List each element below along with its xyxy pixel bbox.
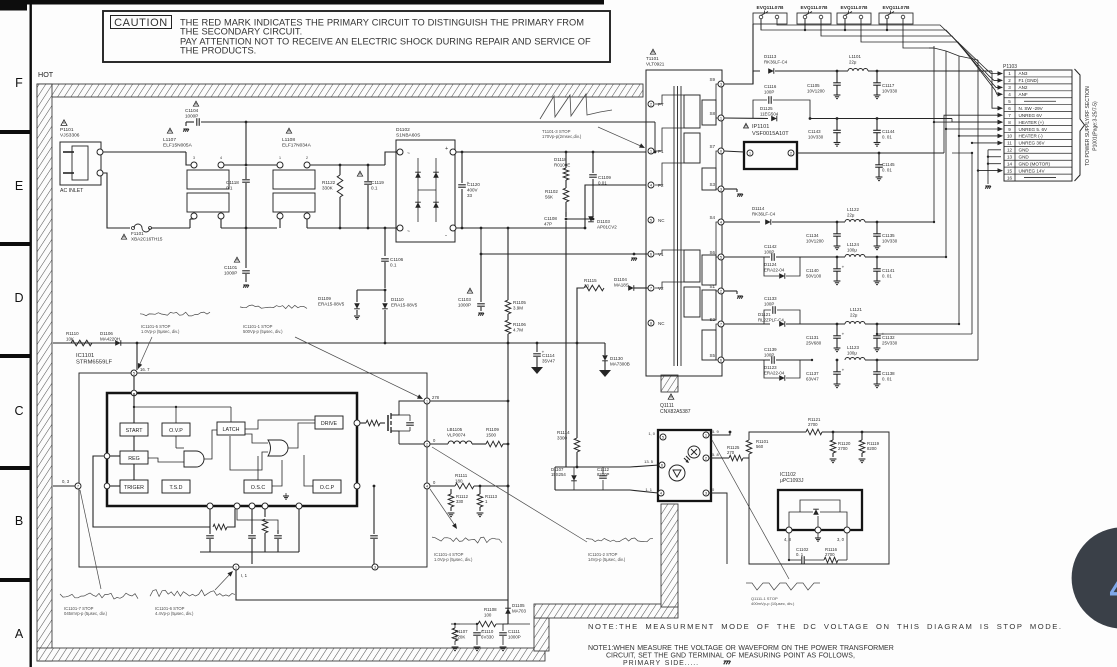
svg-text:LB1105: LB1105	[447, 427, 463, 432]
svg-text:S7: S7	[709, 144, 715, 149]
svg-text:D1124: D1124	[764, 262, 777, 267]
svg-text:1000P: 1000P	[508, 634, 521, 639]
svg-text:100μ: 100μ	[847, 350, 857, 355]
svg-text:22μ: 22μ	[849, 59, 857, 64]
svg-text:3.9M: 3.9M	[513, 305, 523, 310]
svg-text:100P: 100P	[764, 301, 774, 306]
svg-text:0, 3: 0, 3	[62, 479, 70, 484]
svg-text:MA18S: MA18S	[614, 282, 629, 287]
svg-text:~: ~	[407, 229, 410, 235]
svg-text:C1101: C1101	[224, 265, 238, 270]
svg-text:L1122: L1122	[847, 207, 859, 212]
svg-text:B: B	[15, 514, 23, 528]
svg-text:D1102: D1102	[396, 127, 410, 133]
svg-text:AN3: AN3	[1019, 71, 1028, 76]
svg-text:15: 15	[1007, 168, 1013, 173]
svg-text:7: 7	[1008, 113, 1011, 118]
svg-text:22μ: 22μ	[847, 212, 855, 217]
svg-text:22μ: 22μ	[850, 312, 858, 317]
svg-text:D1104: D1104	[614, 277, 627, 282]
svg-text:10V1200: 10V1200	[806, 238, 824, 243]
svg-text:11EG504: 11EG504	[760, 111, 779, 116]
svg-text:25V330: 25V330	[882, 340, 898, 345]
svg-text:S3: S3	[709, 182, 715, 187]
svg-text:ERA22-04: ERA22-04	[764, 267, 785, 272]
svg-text:15S254: 15S254	[551, 472, 566, 477]
svg-text:11: 11	[1007, 141, 1012, 146]
svg-text:C1105: C1105	[807, 83, 820, 88]
svg-text:10: 10	[1007, 134, 1013, 139]
svg-text:0.1: 0.1	[226, 186, 233, 191]
svg-text:D1106: D1106	[100, 331, 113, 336]
svg-text:14: 14	[1007, 161, 1013, 166]
svg-text:RK36LF-C4: RK36LF-C4	[752, 211, 776, 216]
svg-text:D1123: D1123	[764, 365, 777, 370]
svg-text:560: 560	[756, 444, 764, 449]
svg-text:NOTE:THE MEASURMENT MODE OF TH: NOTE:THE MEASURMENT MODE OF THE DC VOLTA…	[588, 622, 1063, 631]
svg-text:R1122: R1122	[322, 180, 336, 185]
svg-text:AC INLET: AC INLET	[60, 188, 84, 194]
svg-text:R1114: R1114	[557, 430, 570, 435]
svg-text:R1110: R1110	[66, 331, 79, 336]
svg-text:P1103: P1103	[1003, 64, 1017, 70]
svg-text:400mVp-p (10μsec, div.): 400mVp-p (10μsec, div.)	[751, 601, 795, 606]
svg-text:2700: 2700	[838, 446, 848, 451]
svg-text:T.S.D: T.S.D	[170, 485, 183, 491]
svg-text:1. 1: 1. 1	[645, 487, 652, 492]
svg-text:-: -	[445, 233, 447, 239]
svg-text:ELF17N034A: ELF17N034A	[282, 143, 312, 149]
svg-text:VLP0074: VLP0074	[447, 432, 466, 437]
svg-text:C1139: C1139	[764, 347, 777, 352]
svg-text:C1140: C1140	[806, 268, 819, 273]
svg-text:D1113: D1113	[764, 54, 777, 59]
svg-text:GND: GND	[1019, 155, 1030, 160]
svg-text:C1119: C1119	[371, 180, 384, 185]
svg-text:TO POWER SUPPLY/RF SECTION: TO POWER SUPPLY/RF SECTION	[1085, 86, 1091, 166]
svg-text:3: 3	[193, 156, 195, 160]
svg-text:D1109: D1109	[318, 296, 331, 301]
svg-text:1500: 1500	[486, 432, 497, 437]
svg-text:L1108: L1108	[282, 137, 295, 143]
svg-text:V2: V2	[658, 286, 664, 291]
svg-text:UNREG 5. 6V: UNREG 5. 6V	[1019, 127, 1049, 132]
svg-text:I, 1: I, 1	[241, 573, 248, 578]
svg-text:DRIVE: DRIVE	[321, 421, 338, 427]
svg-text:R1111: R1111	[455, 473, 468, 478]
svg-text:R1105: R1105	[513, 300, 526, 305]
svg-text:HOT: HOT	[38, 70, 54, 79]
svg-text:D1118: D1118	[554, 157, 567, 162]
svg-text:V1: V1	[658, 252, 664, 257]
svg-text:N. SW -29V: N. SW -29V	[1019, 106, 1044, 111]
svg-text:P1001(Page:3-25/7-5): P1001(Page:3-25/7-5)	[1093, 101, 1099, 151]
svg-text:1000P: 1000P	[224, 271, 237, 276]
svg-text:2700: 2700	[825, 552, 835, 557]
svg-text:HEATER (-): HEATER (-)	[1019, 134, 1044, 139]
svg-text:0. 01: 0. 01	[882, 273, 892, 278]
svg-text:1, 0: 1, 0	[648, 431, 655, 436]
svg-text:GND: GND	[1019, 148, 1030, 153]
svg-text:VLT0921: VLT0921	[646, 62, 665, 67]
svg-text:EVQ11L07B: EVQ11L07B	[801, 5, 828, 11]
svg-text:REG: REG	[128, 456, 139, 462]
svg-text:C1142: C1142	[764, 244, 777, 249]
svg-text:47P: 47P	[544, 221, 552, 226]
svg-text:2: 2	[306, 156, 308, 160]
svg-text:C1141: C1141	[882, 268, 895, 273]
svg-text:MA4220H: MA4220H	[100, 336, 120, 341]
svg-text:PT: PT	[658, 102, 664, 107]
svg-text:10V1200: 10V1200	[807, 88, 825, 93]
svg-text:0.1: 0.1	[371, 186, 378, 191]
svg-text:33: 33	[467, 193, 473, 198]
svg-text:1: 1	[279, 156, 281, 160]
svg-text:NOTE1:WHEN MEASURE THE VOLTAGE: NOTE1:WHEN MEASURE THE VOLTAGE OR WAVEFO…	[588, 645, 894, 652]
svg-text:16: 16	[1007, 175, 1013, 180]
svg-text:A: A	[15, 627, 24, 641]
svg-text:R1115: R1115	[584, 278, 597, 283]
svg-text:L1101: L1101	[849, 54, 861, 59]
svg-text:8: 8	[1008, 120, 1011, 125]
svg-text:D1121: D1121	[758, 312, 771, 317]
svg-text:E: E	[15, 179, 23, 193]
svg-text:C1106: C1106	[390, 257, 404, 262]
svg-text:IC1101: IC1101	[76, 353, 94, 359]
svg-text:VJS3306: VJS3306	[60, 133, 80, 139]
svg-text:9: 9	[1008, 127, 1011, 132]
svg-text:GND (MOTOR): GND (MOTOR)	[1019, 161, 1051, 166]
svg-text:IP1101: IP1101	[752, 124, 769, 130]
svg-text:C1138: C1138	[882, 371, 895, 376]
svg-text:13. 5: 13. 5	[644, 459, 654, 464]
svg-text:P1: P1	[658, 149, 664, 154]
svg-text:100: 100	[484, 612, 492, 617]
svg-text:D1103: D1103	[597, 219, 610, 224]
svg-text:4.7M: 4.7M	[513, 327, 523, 332]
svg-text:50V100: 50V100	[806, 273, 822, 278]
svg-text:NC: NC	[658, 321, 665, 326]
svg-text:C1131: C1131	[806, 335, 819, 340]
svg-text:D1125: D1125	[760, 106, 773, 111]
svg-text:+: +	[842, 264, 845, 269]
svg-text:HEATER (+): HEATER (+)	[1019, 120, 1045, 125]
svg-text:+: +	[482, 628, 485, 633]
svg-text:6V330: 6V330	[481, 634, 494, 639]
svg-text:3, 0: 3, 0	[837, 537, 845, 542]
svg-text:O.C.P: O.C.P	[320, 485, 335, 491]
svg-text:S9: S9	[709, 77, 715, 82]
svg-text:16. 7: 16. 7	[140, 367, 150, 372]
svg-text:μPC1093J: μPC1093J	[780, 478, 804, 484]
svg-text:5: 5	[1008, 99, 1011, 104]
svg-text:D1110: D1110	[391, 297, 404, 302]
svg-text:S4: S4	[709, 215, 715, 220]
svg-text:C1134: C1134	[806, 233, 819, 238]
svg-text:C1108: C1108	[544, 216, 557, 221]
svg-text:1000P: 1000P	[185, 114, 198, 119]
svg-text:100P: 100P	[764, 249, 774, 254]
svg-text:L1107: L1107	[163, 137, 176, 143]
svg-text:EVQ11L07B: EVQ11L07B	[841, 5, 868, 11]
svg-text:ERA15-08V5: ERA15-08V5	[391, 302, 418, 307]
svg-text:270: 270	[727, 450, 735, 455]
svg-text:MA703: MA703	[512, 608, 526, 613]
svg-text:+: +	[445, 146, 448, 152]
svg-text:10V330: 10V330	[882, 238, 898, 243]
svg-text:35V47: 35V47	[542, 358, 556, 363]
svg-text:CNX82A5387: CNX82A5387	[660, 409, 691, 415]
svg-text:L1123: L1123	[847, 345, 859, 350]
svg-text:63V47: 63V47	[806, 376, 819, 381]
svg-text:L1124: L1124	[847, 242, 859, 247]
svg-text:C1145: C1145	[882, 162, 895, 167]
svg-text:4: 4	[220, 156, 222, 160]
svg-text:ERA22-04: ERA22-04	[764, 370, 785, 375]
svg-text:2: 2	[1008, 78, 1011, 83]
svg-text:12: 12	[1007, 148, 1013, 153]
svg-text:EVQ11L07B: EVQ11L07B	[757, 5, 784, 11]
svg-text:400V: 400V	[467, 187, 478, 192]
svg-text:ERA15-08V5: ERA15-08V5	[318, 301, 345, 306]
svg-text:C1118: C1118	[226, 180, 239, 185]
svg-text:AP01CV2: AP01CV2	[597, 224, 617, 229]
svg-text:XBA2C16TH15: XBA2C16TH15	[131, 237, 163, 242]
svg-text:25V680: 25V680	[806, 340, 822, 345]
svg-text:5. 9: 5. 9	[712, 429, 719, 434]
svg-text:UNREG 36V: UNREG 36V	[1019, 141, 1046, 146]
svg-text:S8: S8	[709, 111, 715, 116]
svg-text:+: +	[842, 367, 845, 372]
svg-text:10V330: 10V330	[882, 88, 898, 93]
svg-text:L1121: L1121	[850, 307, 862, 312]
svg-text:TRIGER: TRIGER	[124, 485, 144, 491]
svg-text:S6: S6	[709, 250, 715, 255]
svg-text:EVQ11L07B: EVQ11L07B	[883, 5, 910, 11]
svg-text:4: 4	[1110, 571, 1117, 607]
svg-text:13: 13	[1007, 155, 1013, 160]
svg-text:~: ~	[407, 151, 410, 157]
svg-text:330K: 330K	[322, 186, 334, 191]
svg-text:D1130: D1130	[610, 356, 623, 361]
svg-text:R1106: R1106	[513, 322, 526, 327]
svg-text:CAUTION: CAUTION	[114, 17, 168, 29]
svg-text:C1116: C1116	[764, 84, 777, 89]
svg-text:1.0Vp-p (5μsec, div.): 1.0Vp-p (5μsec, div.)	[434, 557, 473, 562]
svg-text:10V330: 10V330	[808, 134, 824, 139]
svg-text:R1108: R1108	[484, 607, 497, 612]
svg-text:4.4Vp-p (5μsec, div.): 4.4Vp-p (5μsec, div.)	[155, 611, 194, 616]
svg-text:NC: NC	[658, 218, 665, 223]
svg-text:4, 8: 4, 8	[784, 537, 792, 542]
svg-text:0. 01: 0. 01	[882, 134, 892, 139]
svg-text:C1143: C1143	[808, 129, 821, 134]
svg-text:3300: 3300	[557, 435, 568, 440]
svg-text:ELF15N005A: ELF15N005A	[163, 143, 193, 149]
svg-text:045mVp-p (5μsec, div.): 045mVp-p (5μsec, div.)	[64, 611, 108, 616]
svg-text:UNREG 6V: UNREG 6V	[1019, 113, 1043, 118]
svg-text:2700: 2700	[808, 422, 818, 427]
svg-text:0. 01: 0. 01	[882, 167, 892, 172]
svg-text:D1114: D1114	[752, 206, 765, 211]
svg-text:T1101: T1101	[646, 56, 659, 61]
svg-text:S1: S1	[709, 284, 715, 289]
svg-text:R1109: R1109	[486, 427, 499, 432]
svg-text:F1 (GND): F1 (GND)	[1019, 78, 1039, 83]
svg-text:C1103: C1103	[458, 297, 471, 302]
svg-text:O.V.P: O.V.P	[169, 428, 183, 434]
svg-text:STRM6559LF: STRM6559LF	[76, 360, 113, 366]
svg-text:14Vp-p (5μsec, div.): 14Vp-p (5μsec, div.)	[588, 557, 626, 562]
svg-text:278: 278	[432, 395, 440, 400]
svg-text:RK36LF-C4: RK36LF-C4	[764, 59, 788, 64]
svg-text:R0100E: R0100E	[554, 162, 570, 167]
svg-text:0. 01: 0. 01	[882, 376, 892, 381]
svg-text:500Vp-p (5μsec, div.): 500Vp-p (5μsec, div.)	[243, 329, 283, 334]
svg-text:C1144: C1144	[882, 129, 895, 134]
svg-text:5. 8: 5. 8	[712, 452, 719, 457]
svg-text:UNREG 14V: UNREG 14V	[1019, 168, 1046, 173]
svg-text:0.1: 0.1	[390, 263, 397, 268]
svg-text:P2: P2	[658, 183, 664, 188]
svg-text:AN2: AN2	[1019, 85, 1028, 90]
svg-text:C1117: C1117	[882, 83, 895, 88]
svg-text:6: 6	[1008, 106, 1011, 111]
svg-text:C1137: C1137	[806, 371, 819, 376]
svg-text:THE SECONDARY CIRCUIT.: THE SECONDARY CIRCUIT.	[180, 27, 302, 37]
svg-text:1000P: 1000P	[458, 302, 471, 307]
svg-text:0. 1: 0. 1	[796, 552, 804, 557]
svg-text:1.0Vp-p (5μsec, div.): 1.0Vp-p (5μsec, div.)	[141, 329, 180, 334]
svg-text:+: +	[542, 349, 545, 354]
svg-text:D1105: D1105	[512, 603, 525, 608]
svg-text:C1104: C1104	[185, 108, 199, 113]
svg-text:100μ: 100μ	[847, 247, 857, 252]
svg-text:F: F	[15, 76, 23, 90]
svg-text:4: 4	[1008, 92, 1011, 97]
svg-text:LATCH: LATCH	[223, 427, 240, 433]
svg-text:C1120: C1120	[467, 182, 480, 187]
svg-text:56K: 56K	[545, 194, 553, 199]
svg-text:330: 330	[456, 499, 464, 504]
svg-text:S1NBA60S: S1NBA60S	[396, 133, 420, 139]
svg-text:180: 180	[455, 478, 463, 483]
svg-text:P1101: P1101	[60, 127, 74, 133]
svg-text:O.S.C: O.S.C	[251, 485, 266, 491]
svg-text:C: C	[14, 404, 23, 418]
svg-text:RL2ZPLF-C4: RL2ZPLF-C4	[758, 317, 784, 322]
svg-text:R1102: R1102	[545, 189, 558, 194]
svg-text:CIRCUIT, SET THE GND TERMINAL: CIRCUIT, SET THE GND TERMINAL OF MEASURI…	[606, 653, 855, 660]
svg-text:MA7300B: MA7300B	[610, 361, 630, 366]
svg-text:THE PRODUCTS.: THE PRODUCTS.	[180, 46, 256, 56]
svg-text:START: START	[126, 428, 144, 434]
svg-text:ANF: ANF	[1019, 92, 1028, 97]
svg-text:1: 1	[1008, 71, 1011, 76]
svg-text:VSF0015A10T: VSF0015A10T	[752, 131, 789, 137]
svg-text:C1109: C1109	[598, 175, 611, 180]
svg-text:D: D	[14, 291, 23, 305]
svg-text:+: +	[842, 331, 845, 336]
svg-text:C1133: C1133	[764, 296, 777, 301]
svg-text:100P: 100P	[764, 89, 774, 94]
svg-text:3: 3	[1008, 85, 1011, 90]
svg-text:S5: S5	[709, 353, 715, 358]
svg-text:8200: 8200	[867, 446, 877, 451]
svg-text:S2: S2	[709, 317, 715, 322]
svg-text:C1111: C1111	[508, 629, 521, 634]
svg-text:PRIMARY SIDE.....: PRIMARY SIDE.....	[623, 660, 699, 667]
svg-text:C1135: C1135	[882, 233, 895, 238]
svg-text:170Vp-p(2msec,div.): 170Vp-p(2msec,div.)	[542, 134, 582, 139]
svg-text:F1101: F1101	[131, 231, 144, 236]
svg-text:100P: 100P	[764, 352, 774, 357]
